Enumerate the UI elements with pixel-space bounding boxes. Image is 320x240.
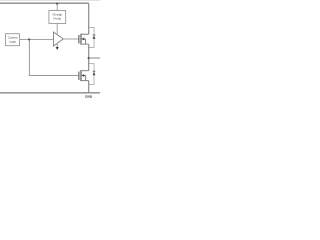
svg-text:Pump: Pump — [53, 16, 61, 20]
wire: charge pump to gate driver supply — [56, 24, 58, 35]
current sink arrow below gate driver — [56, 44, 59, 50]
svg-text:GND: GND — [85, 95, 93, 99]
wire: VIN rail to charge pump — [56, 4, 58, 11]
charge pump block — [49, 11, 66, 24]
wire: right rail Q1 source to OUT node and Q2 drain — [88, 44, 90, 71]
wire: gate driver output to Q1 gate — [63, 38, 78, 40]
body diode D2 symbol — [93, 71, 96, 75]
svg-text:Logic: Logic — [9, 40, 17, 44]
transistor Q2: low-side NMOS — [79, 70, 89, 81]
body diode D2 branch wires (parallel to Q2) — [89, 64, 94, 85]
ground rail (bottom) — [0, 92, 100, 94]
node OUT on right rail — [88, 57, 90, 59]
node A: gate drive branch junction — [28, 38, 30, 40]
wire: VIN top rail — [0, 2, 89, 4]
op-amp A1: gate driver triangle — [54, 32, 64, 46]
body diode D1 symbol — [93, 35, 96, 39]
wire: right rail upper (VIN to Q1 drain) — [88, 3, 90, 34]
body diode D1 branch wires (parallel to Q1) — [89, 28, 94, 48]
node: charge pump tap on VIN rail — [56, 3, 58, 5]
control logic block — [6, 34, 20, 46]
wire: right rail Q2 source to ground rail — [88, 81, 90, 93]
faint figure top edge — [0, 0, 100, 1]
wire: control logic output to gate driver input — [20, 38, 54, 40]
wire: branch to Q2 gate (down then right) — [29, 39, 78, 75]
transistor Q1: high-side NMOS — [79, 34, 89, 45]
wire: OUT pin line to right edge — [89, 57, 100, 59]
GND label — [85, 95, 93, 99]
